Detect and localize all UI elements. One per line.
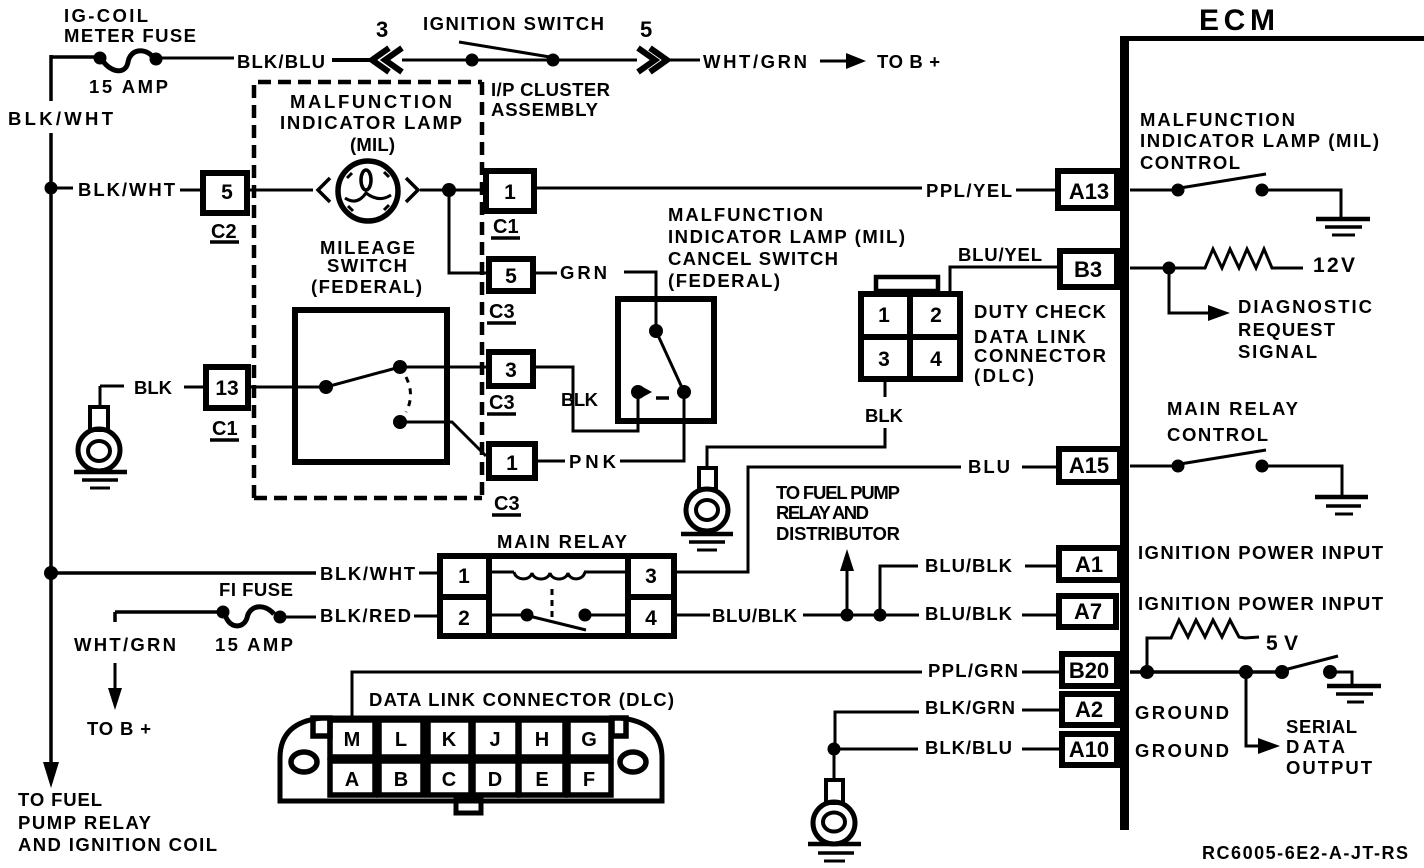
svg-text:MAIN RELAY: MAIN RELAY (1167, 398, 1299, 419)
svg-text:C1: C1 (212, 418, 238, 440)
svg-text:IGNITION POWER INPUT: IGNITION POWER INPUT (1138, 542, 1384, 563)
svg-text:PPL/YEL: PPL/YEL (926, 180, 1012, 201)
svg-text:IGNITION POWER INPUT: IGNITION POWER INPUT (1138, 593, 1384, 614)
svg-text:INDICATOR LAMP (MIL): INDICATOR LAMP (MIL) (668, 226, 905, 247)
svg-text:SIGNAL: SIGNAL (1238, 341, 1317, 362)
svg-text:CANCEL SWITCH: CANCEL SWITCH (668, 248, 838, 269)
svg-text:B20: B20 (1069, 658, 1109, 683)
svg-text:E: E (535, 769, 548, 791)
svg-text:TO B +: TO B + (877, 51, 940, 72)
svg-text:BLK: BLK (134, 377, 173, 398)
svg-text:A15: A15 (1069, 453, 1109, 478)
svg-text:PNK: PNK (569, 451, 617, 472)
svg-text:J: J (489, 729, 500, 751)
svg-text:SERIAL: SERIAL (1286, 716, 1357, 737)
svg-text:L: L (395, 729, 407, 751)
svg-text:BLU/BLK: BLU/BLK (712, 605, 798, 626)
svg-text:A: A (345, 769, 359, 791)
svg-text:M: M (344, 729, 361, 751)
svg-text:C3: C3 (489, 392, 515, 414)
svg-text:BLU/YEL: BLU/YEL (958, 244, 1042, 265)
svg-text:1: 1 (506, 452, 518, 475)
svg-text:2: 2 (458, 607, 470, 630)
svg-text:1: 1 (458, 565, 470, 588)
svg-text:4: 4 (930, 348, 942, 371)
svg-text:CONTROL: CONTROL (1140, 152, 1240, 173)
svg-text:DUTY CHECK: DUTY CHECK (974, 301, 1107, 322)
svg-text:C3: C3 (489, 301, 515, 323)
svg-text:MALFUNCTION: MALFUNCTION (290, 91, 452, 112)
svg-text:BLU: BLU (968, 456, 1010, 477)
svg-text:BLK: BLK (865, 405, 904, 426)
svg-text:C1: C1 (493, 216, 519, 238)
svg-text:BLU/BLK: BLU/BLK (925, 555, 1013, 576)
svg-text:AND IGNITION COIL: AND IGNITION COIL (18, 834, 217, 855)
svg-text:TO FUEL PUMP: TO FUEL PUMP (776, 482, 900, 503)
svg-text:G: G (581, 729, 597, 751)
svg-text:MAIN RELAY: MAIN RELAY (497, 531, 628, 552)
svg-text:D: D (488, 769, 502, 791)
svg-text:DISTRIBUTOR: DISTRIBUTOR (776, 523, 900, 544)
svg-text:MALFUNCTION: MALFUNCTION (668, 204, 823, 225)
svg-text:FI FUSE: FI FUSE (219, 579, 293, 600)
svg-text:12V: 12V (1313, 254, 1355, 277)
svg-text:5: 5 (221, 181, 233, 204)
svg-text:TO B +: TO B + (87, 718, 151, 739)
svg-text:SWITCH: SWITCH (327, 255, 407, 276)
svg-text:(MIL): (MIL) (350, 134, 395, 155)
svg-text:H: H (535, 729, 549, 751)
svg-text:5: 5 (505, 265, 517, 288)
svg-text:BLK/GRN: BLK/GRN (925, 697, 1015, 718)
svg-text:15 AMP: 15 AMP (215, 634, 293, 655)
svg-text:I/P CLUSTER: I/P CLUSTER (491, 79, 610, 100)
svg-text:BLK/WHT: BLK/WHT (320, 563, 416, 584)
svg-text:C3: C3 (494, 493, 520, 515)
svg-text:MALFUNCTION: MALFUNCTION (1140, 109, 1295, 130)
svg-text:ASSEMBLY: ASSEMBLY (491, 99, 599, 120)
svg-text:METER FUSE: METER FUSE (64, 25, 196, 46)
svg-text:INDICATOR LAMP (MIL): INDICATOR LAMP (MIL) (1140, 130, 1379, 151)
svg-text:A13: A13 (1069, 179, 1109, 204)
svg-text:BLU/BLK: BLU/BLK (925, 603, 1013, 624)
svg-text:(FEDERAL): (FEDERAL) (311, 276, 422, 297)
svg-text:DATA LINK: DATA LINK (974, 326, 1087, 347)
svg-text:A7: A7 (1074, 599, 1102, 624)
svg-text:ECM: ECM (1199, 4, 1275, 37)
svg-text:13: 13 (215, 377, 238, 400)
svg-text:DIAGNOSTIC: DIAGNOSTIC (1238, 296, 1372, 317)
svg-text:A2: A2 (1075, 697, 1103, 722)
svg-text:C2: C2 (211, 221, 237, 243)
svg-text:IGNITION SWITCH: IGNITION SWITCH (423, 13, 604, 34)
svg-text:BLK/WHT: BLK/WHT (78, 179, 176, 200)
svg-text:(DLC): (DLC) (974, 365, 1034, 386)
svg-text:DATA LINK CONNECTOR (DLC): DATA LINK CONNECTOR (DLC) (369, 689, 674, 710)
svg-text:K: K (442, 729, 457, 751)
svg-text:4: 4 (645, 607, 657, 630)
svg-text:5: 5 (640, 17, 652, 42)
svg-text:RELAY AND: RELAY AND (776, 502, 869, 523)
svg-text:BLK/WHT: BLK/WHT (8, 108, 114, 129)
svg-text:B: B (394, 769, 408, 791)
svg-text:1: 1 (504, 181, 516, 204)
svg-text:3: 3 (645, 565, 657, 588)
svg-text:3: 3 (505, 359, 517, 382)
svg-text:BLK/BLU: BLK/BLU (237, 51, 325, 72)
svg-text:GRN: GRN (560, 262, 607, 283)
svg-text:REQUEST: REQUEST (1238, 319, 1336, 340)
svg-text:BLK/BLU: BLK/BLU (925, 737, 1012, 758)
svg-text:CONNECTOR: CONNECTOR (974, 345, 1106, 366)
svg-text:1: 1 (878, 304, 890, 327)
svg-text:A10: A10 (1069, 737, 1109, 762)
svg-text:CONTROL: CONTROL (1167, 424, 1268, 445)
svg-text:2: 2 (930, 304, 942, 327)
svg-text:RC6005-6E2-A-JT-RS: RC6005-6E2-A-JT-RS (1202, 843, 1408, 863)
svg-text:3: 3 (878, 348, 890, 371)
svg-text:C: C (442, 769, 456, 791)
svg-text:A1: A1 (1075, 552, 1103, 577)
svg-text:TO FUEL: TO FUEL (18, 789, 102, 810)
svg-text:PUMP RELAY: PUMP RELAY (18, 812, 152, 833)
svg-text:(FEDERAL): (FEDERAL) (668, 270, 780, 291)
svg-text:BLK: BLK (561, 389, 599, 410)
svg-text:B3: B3 (1074, 257, 1102, 282)
svg-text:F: F (583, 769, 595, 791)
svg-text:INDICATOR LAMP: INDICATOR LAMP (280, 112, 462, 133)
svg-text:3: 3 (376, 17, 388, 42)
